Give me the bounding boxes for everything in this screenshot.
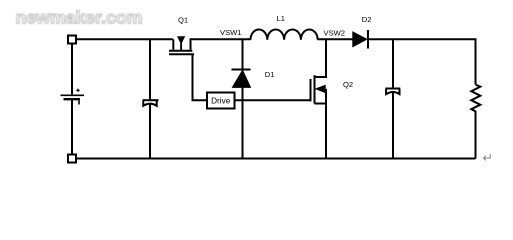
- svg-text:D2: D2: [362, 15, 372, 24]
- svg-text:VSW1: VSW1: [220, 28, 242, 37]
- svg-text:D1: D1: [265, 70, 275, 79]
- capacitor Cin top plate: [143, 99, 159, 101]
- wire top rail D2 to right corner, down to resistor: [369, 39, 476, 84]
- Drive box: [207, 93, 235, 109]
- transistor Q2 channel bar: [314, 75, 316, 103]
- svg-text:↵: ↵: [483, 151, 493, 165]
- svg-text:L1: L1: [277, 14, 285, 23]
- wire top rail Q1 to L1: [190, 38, 251, 40]
- wire input cap branch upper: [149, 40, 151, 99]
- capacitor Cout curved bottom plate: [386, 89, 399, 94]
- wire battery branch upper: [71, 44, 73, 95]
- inductor L1: [251, 29, 318, 39]
- wire output cap branch lower: [392, 93, 394, 158]
- transistor Q2 gate bar: [310, 79, 312, 101]
- capacitor Cin curved bottom plate: [143, 101, 156, 106]
- wire VSW1 node down to D1: [242, 40, 244, 69]
- wire Q2 source/body to bottom rail: [325, 89, 327, 158]
- terminal square top-left: [68, 36, 76, 44]
- svg-text:Q2: Q2: [343, 80, 353, 89]
- diode D1 triangle: [233, 71, 250, 88]
- battery B1 plates: [61, 94, 85, 96]
- transistor Q1 gate bar: [169, 53, 194, 55]
- battery minus tick: [78, 101, 80, 105]
- svg-text:VSW2: VSW2: [324, 28, 346, 37]
- transistor Q1 body arrow: [178, 37, 185, 44]
- svg-text:Q1: Q1: [178, 15, 188, 24]
- wire Drive output to D1 node and Q2 gate: [235, 99, 312, 101]
- capacitor Cout top plate: [385, 88, 400, 90]
- transistor Q1 drain leg: [190, 39, 192, 50]
- wire VSW2 node down to Q2 drain: [325, 40, 327, 77]
- wire input cap branch lower: [149, 105, 151, 159]
- wire bottom rail: [76, 158, 476, 160]
- diode D2 triangle: [353, 32, 366, 46]
- svg-text:newmaker.com: newmaker.com: [16, 8, 143, 28]
- wire top rail left (square to Q1 source leg): [76, 38, 173, 40]
- transistor Q1 channel bar: [169, 50, 192, 52]
- wire battery branch lower: [71, 100, 73, 155]
- resistor R load: [471, 85, 480, 159]
- battery plus sign: [76, 89, 79, 92]
- transistor Q2 body arrow: [316, 85, 325, 92]
- transistor Q2 drain stub: [315, 76, 328, 78]
- diode D2 cathode bar: [367, 30, 369, 49]
- transistor Q2 source stub: [315, 103, 328, 105]
- svg-text:Drive: Drive: [211, 97, 231, 106]
- wire top rail L1 to D2: [318, 38, 354, 40]
- wire output cap branch upper: [392, 40, 394, 88]
- transistor Q1 source leg: [172, 39, 174, 50]
- diode D1 cathode bar: [232, 69, 251, 71]
- wire Q1 gate to Drive: [193, 55, 208, 100]
- wire D1 anode to bottom rail: [242, 88, 244, 159]
- terminal square bottom-left: [68, 155, 76, 163]
